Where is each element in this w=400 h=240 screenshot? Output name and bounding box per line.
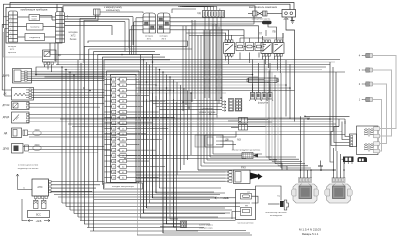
speed sensor ДС bbox=[43, 50, 57, 65]
svg-text:форсунки: форсунки bbox=[258, 102, 269, 105]
svg-text:клапан продувки адсорбера: клапан продувки адсорбера bbox=[232, 150, 261, 152]
svg-text:ЖГ3: ЖГ3 bbox=[161, 39, 166, 41]
wires АПС to right bbox=[51, 182, 105, 193]
verticals to module x330-345 bbox=[330, 62, 345, 135]
svg-text:4: 4 bbox=[10, 29, 11, 31]
svg-text:3: 3 bbox=[10, 25, 11, 27]
ignition switch contacts bbox=[248, 11, 282, 16]
wires ЖГ2 white to right bbox=[65, 15, 134, 51]
svg-text:ДФ: ДФ bbox=[225, 139, 229, 142]
knock sensor ДД bbox=[12, 128, 28, 138]
svg-text:Январь 5.1.1: Январь 5.1.1 bbox=[302, 232, 319, 236]
svg-text:контактная группа: контактная группа bbox=[252, 18, 271, 20]
staircase x198-213 to coil1 bbox=[198, 154, 336, 170]
wires РХХ feeds bbox=[136, 172, 226, 181]
svg-text:ПВ: ПВ bbox=[272, 31, 276, 34]
fuse (black capsule) bbox=[262, 21, 272, 24]
ground at battery bbox=[291, 17, 295, 23]
svg-text:тахометр: тахометр bbox=[30, 27, 40, 29]
fuse box монтажный блок bbox=[236, 190, 256, 225]
sensor fan-out wires to controller bbox=[27, 72, 104, 107]
svg-text:ДПДЗ: ДПДЗ bbox=[3, 116, 10, 119]
ground symbol above coils bbox=[318, 161, 323, 167]
svg-text:РХХ: РХХ bbox=[241, 167, 246, 170]
battery АКБ bbox=[282, 10, 296, 18]
svg-text:зажиг.: зажиг. bbox=[31, 19, 37, 21]
svg-text:охлаждения: охлаждения bbox=[270, 215, 283, 217]
wires ЖГ3 right pins to power area bbox=[170, 9, 277, 43]
module winding 2 bbox=[364, 143, 374, 152]
svg-text:индикатор состояния: индикатор состояния bbox=[18, 168, 38, 170]
ignition coil body bbox=[291, 178, 318, 204]
svg-text:колодка: колодка bbox=[8, 46, 17, 48]
wires compressor connector bbox=[160, 224, 181, 227]
svg-text:белая: белая bbox=[70, 38, 77, 41]
center field grid horizontals bbox=[36, 55, 345, 94]
fuel level feed lines bbox=[150, 101, 226, 112]
tachometer box (тахометр) bbox=[27, 24, 44, 31]
svg-text:в: в bbox=[67, 17, 68, 19]
svg-text:ПТ: ПТ bbox=[259, 33, 263, 36]
svg-text:АПС: АПС bbox=[37, 186, 42, 189]
wires relay row verticals bbox=[210, 30, 283, 73]
wires cluster internal bbox=[18, 16, 30, 18]
svg-text:ЖГ2: ЖГ2 bbox=[10, 49, 15, 51]
vertical bundle right of ladder x140-176 lower bbox=[137, 93, 176, 235]
svg-text:колодка: колодка bbox=[160, 36, 169, 38]
nested corners bottom-left to bottom bus bbox=[62, 203, 250, 231]
relay 1 (реле зажигания) bbox=[224, 43, 235, 54]
svg-text:красная: красная bbox=[8, 52, 17, 54]
ground link above coils bbox=[320, 167, 322, 171]
vertical bundle left x50-92 bbox=[50, 43, 104, 231]
wires fan and fuse box bbox=[232, 186, 281, 219]
ignition coil body bbox=[325, 178, 352, 204]
label +АКБ with arrows bbox=[22, 199, 50, 223]
module winding 1 bbox=[364, 128, 374, 137]
shield oval ДД bbox=[33, 130, 41, 135]
svg-text:МЗ: МЗ bbox=[237, 139, 241, 142]
svg-text:2: 2 bbox=[10, 21, 11, 23]
extra verticals x216-222 bbox=[216, 24, 222, 106]
injectors (форсунки) bbox=[250, 84, 256, 101]
svg-text:выключатель зажигания: выключатель зажигания bbox=[249, 6, 278, 9]
svg-text:КД: КД bbox=[197, 12, 200, 15]
up arrow bbox=[16, 174, 19, 183]
controller connector колодка контроллера bbox=[105, 71, 175, 183]
connector ladder ЖГ2 white (right, 2 columns) bbox=[56, 12, 65, 43]
coil1 feed verticals bbox=[301, 116, 312, 178]
svg-text:вентилятор системы: вентилятор системы bbox=[266, 212, 287, 214]
svg-text:1: 1 bbox=[10, 17, 11, 19]
label +АКБ near fuse box bbox=[215, 197, 236, 200]
module HT output terminals bbox=[374, 127, 380, 131]
ignition module box bbox=[357, 126, 379, 155]
fuse 2 bbox=[246, 43, 254, 51]
relay area horizontals bbox=[186, 16, 254, 36]
indicator ВСС box bbox=[28, 211, 50, 218]
relay 2 (реле топливного насоса) bbox=[261, 43, 272, 54]
svg-text:комбинация приборов: комбинация приборов bbox=[21, 8, 48, 12]
module LT connector bbox=[350, 134, 357, 147]
wire battery down to relays bbox=[286, 17, 295, 60]
wire top bus bbox=[4, 3, 295, 29]
wires diagnostic connector bbox=[178, 7, 221, 118]
verticals x265-281 mid-low bbox=[266, 68, 311, 168]
cooling fan motor bbox=[277, 195, 288, 210]
lower horizontals from sensors y116-160 bbox=[23, 115, 345, 159]
small stacked connectors above ДФ bbox=[239, 118, 248, 131]
instrument cluster box (комбинация приборов) bbox=[6, 8, 62, 44]
lamp box (лампа) bbox=[29, 15, 40, 21]
wire ДС down bbox=[35, 65, 51, 75]
fuel rail bbox=[247, 78, 279, 83]
svg-text:+АКБ: +АКБ bbox=[36, 220, 42, 223]
svg-text:монтажный блок: монтажный блок bbox=[238, 222, 254, 225]
svg-text:спидометр: спидометр bbox=[29, 37, 41, 39]
center field grid verticals bbox=[141, 55, 192, 234]
nested corners upper-left to field bbox=[84, 41, 192, 60]
connector ladder ЖГ2 red (left, 2 columns) bbox=[7, 11, 18, 42]
svg-text:ДТОЖ: ДТОЖ bbox=[3, 104, 11, 107]
coolant temp sensor ДТОЖ bbox=[12, 102, 30, 110]
pin stubs above diagnostic connector bbox=[203, 9, 205, 11]
staircase corners field to bottom right bbox=[137, 187, 252, 235]
wires route computer down bbox=[80, 12, 143, 63]
crankshaft sensor ДПКВ bbox=[12, 144, 29, 154]
svg-text:ЖГ1: ЖГ1 bbox=[147, 39, 152, 41]
module feed lines bbox=[305, 116, 350, 145]
diagnostic connector КД (strip) bbox=[203, 11, 225, 18]
verticals injector feeds bbox=[253, 60, 271, 93]
svg-text:ВСС: ВСС bbox=[36, 214, 41, 216]
verticals right x286-296 down bbox=[286, 60, 295, 122]
immobilizer АПС box bbox=[32, 179, 51, 199]
antenna coils under АПС bbox=[34, 199, 47, 209]
phase sensor ДФ bbox=[195, 135, 223, 147]
fuse 3 bbox=[255, 43, 263, 51]
fuel pump connector pair bbox=[229, 99, 242, 112]
svg-text:в линию диагностики: в линию диагностики bbox=[18, 165, 39, 167]
shield oval ДПКВ bbox=[33, 145, 41, 150]
svg-text:колодка: колодка bbox=[145, 36, 154, 38]
speedometer box (спидометр) bbox=[25, 34, 45, 41]
wire cluster left pins to left edge bbox=[2, 17, 42, 96]
connector к реле муфты компрессора bbox=[181, 221, 187, 228]
svg-text:колодка контроллера: колодка контроллера bbox=[112, 186, 135, 188]
svg-text:5: 5 bbox=[10, 32, 11, 34]
suppressor part B bbox=[358, 157, 368, 162]
suppressor part A bbox=[342, 157, 354, 165]
connector to route computer bbox=[94, 9, 101, 15]
connector колодка ЖГ3 bbox=[158, 13, 171, 33]
svg-text:2в: 2в bbox=[23, 187, 25, 189]
connector колодка ЖГ1 bbox=[143, 13, 156, 33]
svg-text:ДМРВ: ДМРВ bbox=[3, 75, 10, 78]
coil2 feed verticals bbox=[330, 124, 344, 178]
stacked connector wires bbox=[228, 120, 272, 128]
oxygen sensor ДК bbox=[12, 88, 34, 101]
svg-text:ДПКВ: ДПКВ bbox=[3, 148, 10, 151]
svg-text:ДД: ДД bbox=[4, 132, 8, 135]
label box колодка контроллера bbox=[104, 183, 143, 189]
svg-text:6: 6 bbox=[10, 36, 11, 38]
relay 3 (реле вентилятора) bbox=[273, 43, 284, 54]
fuse 1 bbox=[236, 43, 244, 51]
throttle position sensor ДПДЗ bbox=[12, 112, 30, 123]
wires ЖГ1-ЖГ3 left pins bbox=[129, 18, 143, 55]
svg-text:РН: РН bbox=[245, 206, 248, 208]
svg-text:компрессора: компрессора bbox=[199, 228, 213, 230]
MAF sensor ДМРВ bbox=[13, 69, 32, 84]
bottom horizontal bus y190-201 bbox=[50, 192, 220, 200]
verticals x183-216 upper bbox=[183, 20, 213, 170]
